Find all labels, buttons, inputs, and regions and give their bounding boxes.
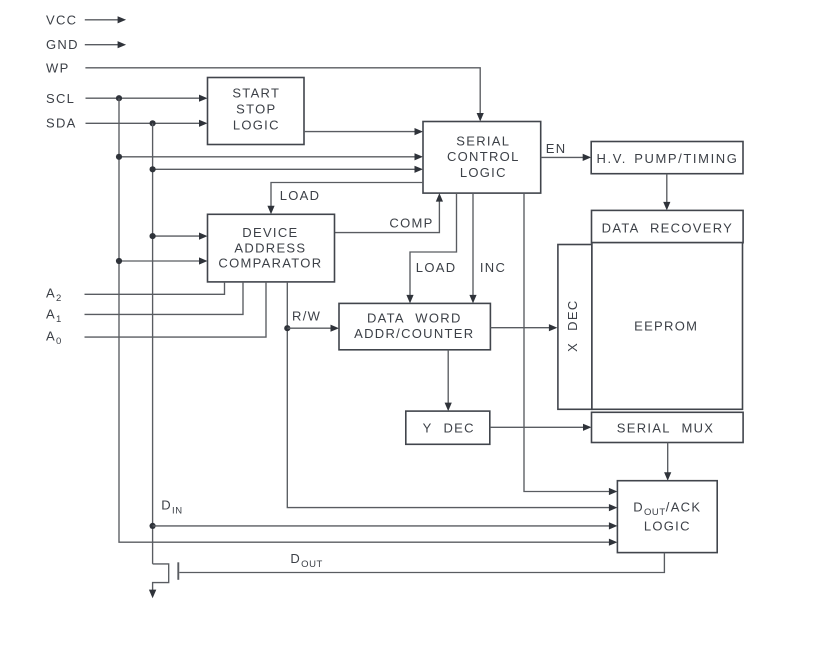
- svg-text:Y DEC: Y DEC: [423, 421, 475, 436]
- wire serial mux to dout ack logic: [664, 443, 671, 481]
- wire SCL to device address comparator: [119, 257, 208, 264]
- block U8 EEPROM: [592, 243, 743, 410]
- block U2 SERIAL CONTROL LOGIC: [423, 122, 541, 194]
- wire DIN to dout ack logic: [153, 522, 618, 529]
- svg-text:COMP: COMP: [389, 215, 433, 230]
- junction SDA rail top: [150, 120, 156, 126]
- wire INC serial control to data word counter: [469, 193, 476, 303]
- svg-text:LOGIC: LOGIC: [233, 118, 280, 133]
- node A0 label: [46, 329, 62, 348]
- svg-text:INC: INC: [480, 260, 506, 275]
- svg-text:ADDRESS: ADDRESS: [234, 240, 306, 255]
- wire start stop logic to serial control logic: [304, 128, 423, 135]
- svg-text:DATA RECOVERY: DATA RECOVERY: [602, 221, 733, 236]
- svg-text:START: START: [232, 86, 280, 101]
- wire LOAD serial control to device address comparator: [267, 183, 423, 215]
- wire LOAD serial control to data word counter: [406, 193, 456, 303]
- node EN label: [546, 141, 567, 156]
- block U6 DATA WORD ADDR/COUNTER: [339, 303, 490, 349]
- svg-text:DATA WORD: DATA WORD: [367, 310, 462, 325]
- wire GND arrow: [85, 41, 126, 48]
- node A2 label: [46, 286, 62, 305]
- svg-text:SERIAL MUX: SERIAL MUX: [617, 421, 714, 436]
- wire WP to serial control logic top: [85, 68, 483, 122]
- wire DOUT from dout ack logic to output transistor gate: [179, 553, 664, 573]
- block U5 DEVICE ADDRESS COMPARATOR: [208, 214, 335, 282]
- wire data word counter to y dec: [445, 350, 452, 411]
- svg-text:LOGIC: LOGIC: [644, 519, 691, 534]
- junction DIN: [150, 523, 156, 529]
- wire hv pump to data recovery: [663, 174, 670, 211]
- junction SDA at comparator feed: [150, 233, 156, 239]
- node GND label: [46, 37, 79, 52]
- svg-text:EN: EN: [546, 141, 567, 156]
- wire y dec to serial mux: [490, 424, 592, 431]
- svg-text:LOAD: LOAD: [280, 188, 321, 203]
- wire R/W to data word counter: [287, 325, 339, 332]
- node DOUT label: [290, 551, 323, 570]
- node LOAD label upper: [280, 188, 321, 203]
- wire SCL to start stop logic: [86, 95, 208, 102]
- svg-text:SDA: SDA: [46, 116, 77, 131]
- wire A1 to comparator: [85, 282, 244, 315]
- svg-text:LOAD: LOAD: [416, 260, 457, 275]
- svg-text:SCL: SCL: [46, 91, 75, 106]
- junction SDA at serial control feed: [150, 166, 156, 172]
- block U9 Y DEC: [406, 411, 490, 444]
- wire SCL to serial control logic: [119, 153, 423, 160]
- wire SDA to serial control logic: [153, 166, 423, 173]
- wire VCC arrow: [85, 16, 126, 23]
- wire R/W comparator down rail to dout ack logic: [287, 282, 617, 511]
- svg-text:WP: WP: [46, 60, 70, 75]
- svg-text:VCC: VCC: [46, 13, 77, 28]
- ground arrow at transistor source: [149, 590, 156, 599]
- node LOAD label lower: [416, 260, 457, 275]
- svg-text:X DEC: X DEC: [565, 299, 580, 351]
- block U4 DATA RECOVERY: [592, 210, 744, 242]
- svg-text:STOP: STOP: [236, 102, 276, 117]
- junction SCL at serial control feed: [116, 154, 122, 160]
- node COMP label: [389, 215, 433, 230]
- block U10 SERIAL MUX: [592, 412, 744, 442]
- svg-text:DEVICE: DEVICE: [242, 225, 298, 240]
- svg-text:ADDR/COUNTER: ADDR/COUNTER: [354, 326, 474, 341]
- wire SCL vertical rail to dout ack logic: [119, 98, 617, 546]
- wire A2 to comparator: [85, 282, 225, 294]
- transistor Q1 gate bar: [177, 562, 179, 580]
- block U1 START STOP LOGIC: [208, 78, 305, 145]
- wire serial control to dout ack logic: [524, 193, 617, 495]
- node WP label: [46, 60, 70, 75]
- node SDA label: [46, 116, 77, 131]
- node R/W label: [292, 309, 321, 324]
- junction R/W: [284, 325, 290, 331]
- block U3 H.V. PUMP/TIMING: [591, 142, 743, 174]
- block U11 DOUT/ACK LOGIC: [617, 481, 717, 553]
- svg-text:H.V. PUMP/TIMING: H.V. PUMP/TIMING: [597, 151, 739, 166]
- wire A0 to comparator: [85, 282, 267, 337]
- svg-text:COMPARATOR: COMPARATOR: [218, 256, 322, 271]
- svg-text:LOGIC: LOGIC: [460, 165, 507, 180]
- svg-text:SERIAL: SERIAL: [456, 134, 510, 149]
- block U7 X DEC: [558, 245, 592, 410]
- wire EN to hv pump: [541, 154, 592, 161]
- svg-text:CONTROL: CONTROL: [447, 149, 520, 164]
- wire SDA to device address comparator: [153, 233, 208, 240]
- node SCL label: [46, 91, 75, 106]
- junction SCL at comparator feed: [116, 258, 122, 264]
- node INC label: [480, 260, 506, 275]
- wire SDA to start stop logic: [86, 120, 208, 127]
- svg-text:R/W: R/W: [292, 309, 321, 324]
- wire SDA vertical rail: [152, 123, 154, 564]
- svg-text:EEPROM: EEPROM: [634, 319, 698, 334]
- wire COMP comparator to serial control: [335, 193, 444, 233]
- transistor Q1 output driver channel: [153, 564, 169, 591]
- node DIN label: [161, 498, 182, 517]
- svg-text:GND: GND: [46, 37, 79, 52]
- junction SCL rail top: [116, 95, 122, 101]
- node VCC label: [46, 13, 77, 28]
- node A1 label: [46, 307, 62, 326]
- wire data word counter to x dec: [490, 324, 557, 331]
